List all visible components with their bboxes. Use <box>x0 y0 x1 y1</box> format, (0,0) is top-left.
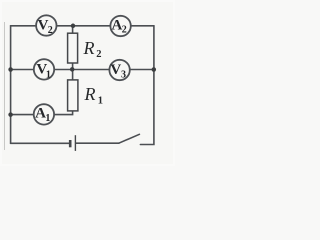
battery cell short plate <box>69 140 72 147</box>
voltmeter V1 <box>34 59 54 79</box>
voltmeter V3 <box>109 60 129 80</box>
svg-text:2: 2 <box>48 25 53 36</box>
wire right vertical <box>140 26 154 145</box>
wire middle to R1 <box>72 70 74 80</box>
ammeter A1 <box>34 104 54 124</box>
svg-text:2: 2 <box>96 49 101 60</box>
resistor R2 <box>68 33 78 63</box>
svg-text:1: 1 <box>46 69 51 80</box>
voltmeter V2 <box>36 15 56 35</box>
node junction middle right <box>152 67 157 72</box>
wire A1 row to R1 bottom <box>11 111 73 115</box>
wire R2 to middle <box>72 63 74 70</box>
node junction middle center <box>70 67 75 72</box>
svg-text:3: 3 <box>121 69 126 80</box>
svg-text:R: R <box>84 84 96 104</box>
wire bottom left to battery <box>11 142 69 144</box>
wire left vertical <box>10 26 12 144</box>
wire battery to switch <box>76 142 119 144</box>
svg-text:V: V <box>110 62 121 78</box>
node junction top center <box>71 24 76 29</box>
wire middle <box>11 69 154 71</box>
wire top to R2 <box>72 26 74 33</box>
svg-text:R: R <box>83 38 95 58</box>
switch S lever <box>119 134 140 143</box>
wire top <box>11 25 154 27</box>
battery cell long plate <box>74 135 76 151</box>
svg-text:1: 1 <box>98 96 103 107</box>
ammeter A2 <box>110 16 130 36</box>
node junction middle left <box>8 67 13 72</box>
svg-text:2: 2 <box>122 25 127 36</box>
resistor R1 <box>68 80 78 111</box>
svg-text:1: 1 <box>45 113 50 124</box>
node junction A1 left <box>8 112 13 117</box>
